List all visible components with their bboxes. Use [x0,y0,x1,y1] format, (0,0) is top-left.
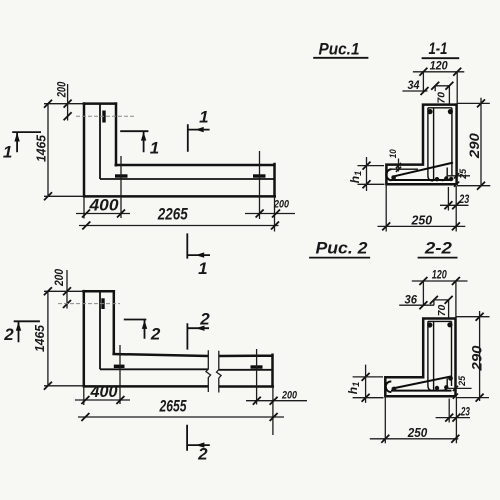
sec2 dimension 250 [370,438,459,440]
svg-text:10: 10 [388,149,399,159]
svg-text:Рис.1: Рис.1 [319,40,360,59]
svg-text:2265: 2265 [157,206,188,224]
fig2 extension line at x=256.6 [256,349,258,405]
svg-text:23: 23 [458,194,469,206]
sec2 top rebar dots [427,322,432,327]
sec1 dimension 23 [440,204,469,206]
fig2 cut mark 2 left [14,321,40,342]
svg-text:200: 200 [52,269,66,287]
svg-text:2: 2 [150,325,161,344]
fig1 extension line at x=121 [120,156,122,218]
sec2 J-bar [442,378,448,390]
svg-text:200: 200 [281,390,298,402]
svg-text:2: 2 [197,445,208,464]
sec2 bottom rebar dots [435,386,439,390]
svg-text:1: 1 [150,139,159,158]
svg-text:200: 200 [55,82,69,99]
svg-text:2: 2 [199,310,210,329]
sec1 dimension 34 [402,90,427,92]
sec1 lower flange bar [391,179,452,181]
sec1 J-bar [442,168,448,181]
fig2 left edge extension below [83,386,85,405]
fig2 element outline [82,290,274,388]
fig2 right edge extension below [272,387,274,436]
sec1 dimension h1 [366,157,368,191]
fig1 extension line at x=259.5 [259,151,261,219]
sec1 bar loop [386,169,391,180]
fig2 dimension row A 200 [246,400,307,402]
fig1 dimension row A 200 [245,213,295,215]
svg-text:200: 200 [273,199,290,211]
svg-text:250: 250 [411,214,433,228]
fig1 dimension 200 (top-left) [67,84,69,121]
fig2 dimension row A 400 [75,399,130,401]
svg-text:2: 2 [3,325,14,344]
sec2 dimension 290 [479,311,481,401]
sec2 outline [384,317,457,397]
sec2 dimension 120 [412,280,468,282]
svg-text:2655: 2655 [159,398,187,416]
svg-text:1: 1 [3,143,12,162]
fig1 right edge extension below [274,196,276,231]
fig2 lifting loop mark [101,298,104,309]
fig1 inner ledge lines [100,104,275,179]
svg-text:1465: 1465 [34,134,49,162]
fig2 break line right [217,351,222,393]
fig1 embedded plate right [253,174,266,177]
fig1 cut mark 1 inner [120,131,148,152]
fig2 cut mark 2 top [187,323,209,349]
sec2 dimension 36 [399,304,434,306]
svg-text:1: 1 [198,259,207,278]
sec2 stirrup [428,321,452,390]
fig1 dimension row B overall [79,225,279,227]
svg-text:120: 120 [430,61,449,73]
svg-text:290: 290 [469,345,485,371]
fig1 lifting loop mark [102,111,105,123]
sec1 loop dot [391,175,396,180]
svg-text:23: 23 [460,407,470,419]
svg-text:h1: h1 [348,171,363,183]
svg-text:25: 25 [457,375,468,387]
svg-text:34: 34 [408,80,421,92]
fig2 dimension 200 (top-left) [66,270,68,309]
svg-text:250: 250 [407,426,427,440]
fig1 cut mark 1 bottom [187,233,210,258]
svg-text:25: 25 [458,168,469,180]
fig1 dimension row A 400 [76,213,130,215]
svg-text:Рис. 2: Рис. 2 [316,239,369,258]
sec1 dimension 120 [413,71,464,73]
fig1 dimension 1465 (left) [47,104,49,197]
sec1 dimension 25 [448,175,470,177]
sec2 dimension h1 [365,365,367,403]
svg-text:36: 36 [405,295,418,307]
svg-text:400: 400 [88,196,119,215]
sec1 stirrup [428,108,452,181]
svg-text:290: 290 [466,133,482,159]
sec2 loop dot [392,387,397,392]
sec2 dimension 70 [434,300,449,318]
sec1 bottom rebar dots [435,177,439,181]
fig1 embedded plate left [115,174,128,177]
fig1 cut mark 1 top [188,124,210,152]
fig1 cut mark 1 left [12,132,41,152]
fig1 element outline [83,102,277,198]
sec2 dimension 23 [436,417,470,419]
svg-text:70: 70 [436,305,448,317]
sec1 dimension 290 [480,98,482,187]
sec2 bar loop [386,382,392,392]
sec1 dimension 250 [378,225,466,227]
fig2 inner ledge lines [100,291,273,370]
sec1 top rebar dots [427,109,432,114]
svg-text:1: 1 [199,108,208,127]
sec1 dimension 10 [398,159,400,172]
fig2 dimension 1465 (left) [47,291,49,386]
svg-text:1465: 1465 [32,324,47,352]
sec1 inner bar vertical [433,108,435,181]
fig2 extension line at x=120 [119,345,121,404]
sec2 bent bar diagonal [392,376,452,388]
svg-text:h1: h1 [346,382,361,394]
svg-text:2-2: 2-2 [424,239,453,258]
fig1 left edge extension below [83,196,85,218]
sec1 bent bar diagonal [392,163,453,177]
sec1 outline [385,103,458,185]
sec2 inner bar vertical [433,321,435,390]
sec1 upper flange bar [391,168,418,170]
svg-text:1-1: 1-1 [429,39,448,58]
fig2 embedded plate left [114,365,125,368]
sec1 dimension 70 [435,86,449,104]
fig2 dimension row B 2655 [78,416,284,418]
fig2 break line left [206,350,211,392]
fig2 cut mark 2 bottom [187,425,210,451]
sec2 dimension 25 [447,387,472,389]
svg-text:120: 120 [432,270,447,282]
sec2 lower flange bar [391,390,452,392]
svg-text:70: 70 [435,92,447,104]
fig2 embedded plate right [251,365,263,368]
svg-text:400: 400 [90,382,118,401]
fig2 cut mark 2 inner [124,320,147,339]
